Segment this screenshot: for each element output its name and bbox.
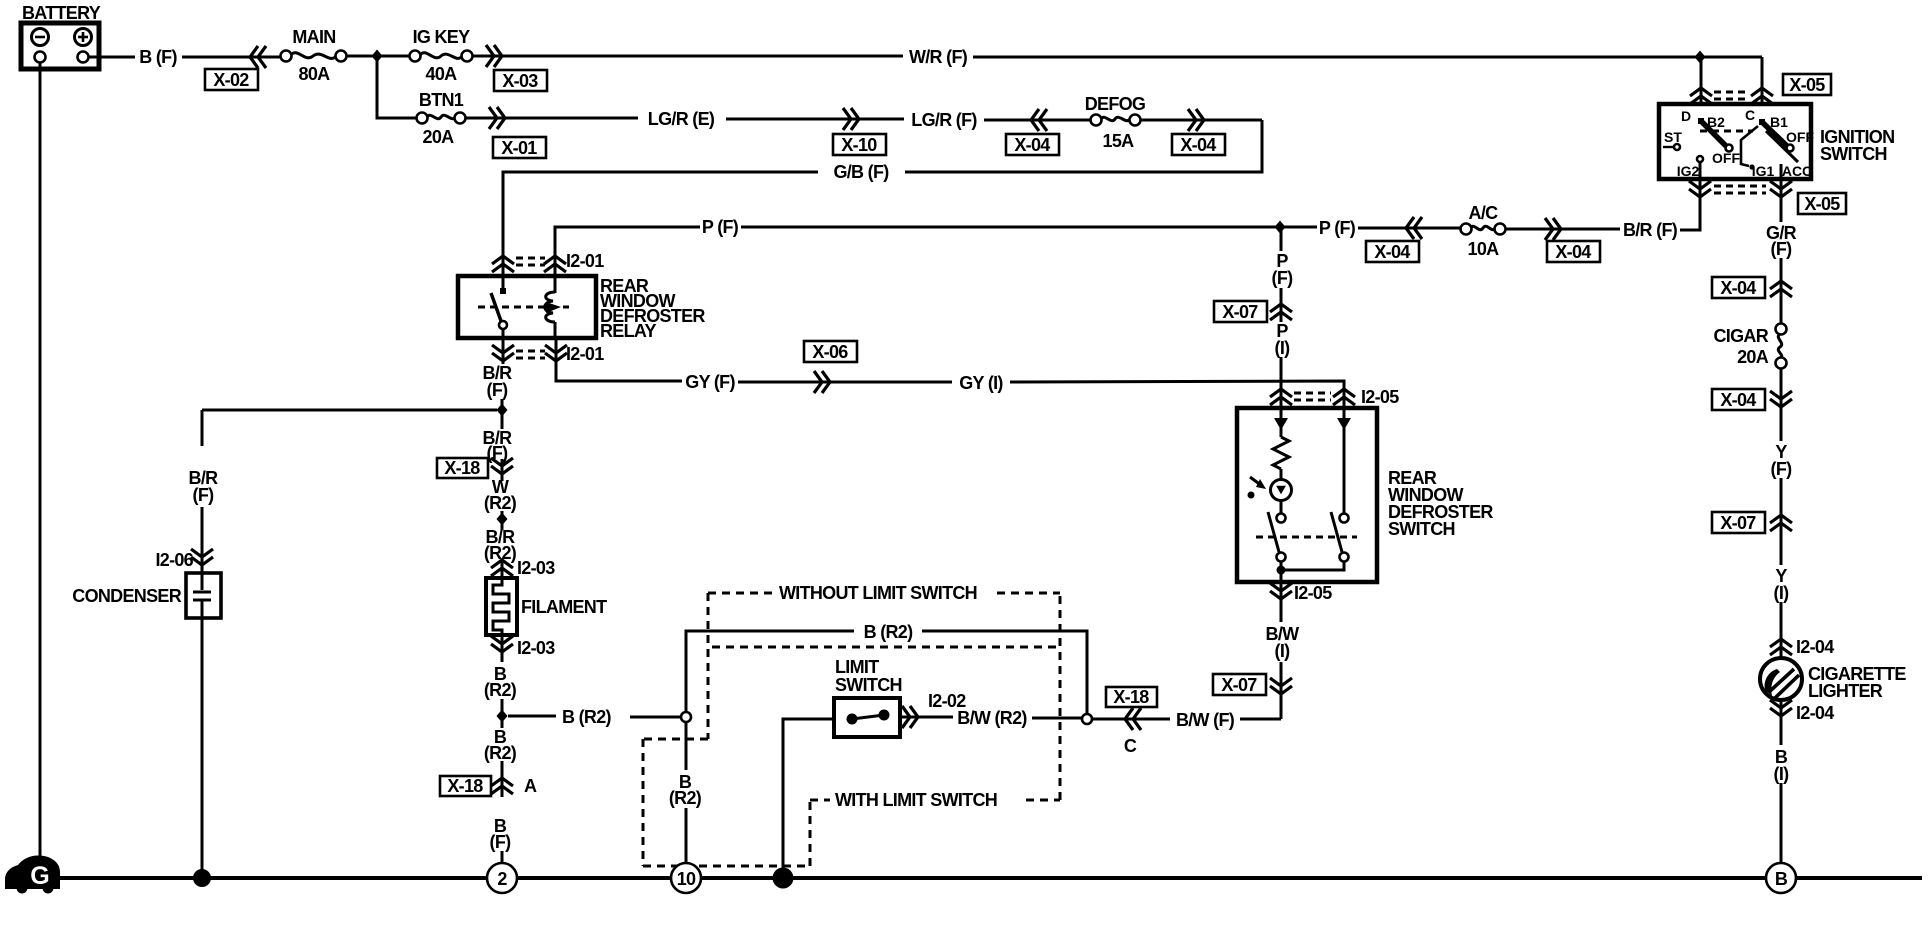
ground circle node B <box>1766 863 1796 893</box>
connector X-07 chevron <box>1280 662 1283 719</box>
filament R1 FILAMENT <box>486 578 607 635</box>
svg-text:X-18: X-18 <box>447 776 483 796</box>
wire limit switch right I2-02 <box>900 716 953 719</box>
connector X-05 label <box>1798 193 1846 214</box>
wire <box>1780 368 1783 441</box>
connector X-02 chevron <box>250 46 266 68</box>
svg-text:X-18: X-18 <box>1113 687 1149 707</box>
svg-text:I2-04: I2-04 <box>1796 637 1834 657</box>
svg-text:(F): (F) <box>1771 459 1793 479</box>
wire limit switch to ground junction <box>783 719 834 868</box>
svg-text:I2-03: I2-03 <box>517 638 555 658</box>
svg-text:ACC: ACC <box>1782 163 1812 179</box>
fuse BTN1 20A <box>417 90 466 147</box>
connector X-01 label <box>493 137 546 158</box>
svg-text:WITHOUT LIMIT SWITCH: WITHOUT LIMIT SWITCH <box>779 583 977 603</box>
connector I2-05 upper chevrons <box>1270 389 1292 405</box>
wire to ground circle B <box>1780 783 1783 863</box>
connector I2-05 lower chevron <box>1280 582 1283 622</box>
ground junction limit switch <box>773 868 794 889</box>
svg-text:B (R2): B (R2) <box>864 622 914 642</box>
svg-text:I2-01: I2-01 <box>566 344 604 364</box>
svg-text:GY (F): GY (F) <box>685 372 735 392</box>
wire battery negative to ground G <box>39 63 42 860</box>
svg-text:15A: 15A <box>1103 131 1135 151</box>
connector I2-04 chevron <box>1770 639 1792 655</box>
wire LG/R (E) to X-10 <box>726 118 904 121</box>
ground G car symbol <box>5 855 60 893</box>
wire branch to fuse BTN1 <box>377 56 416 118</box>
connector X-04 label <box>1006 134 1059 155</box>
svg-text:IG1: IG1 <box>1752 163 1775 179</box>
svg-text:A: A <box>524 776 537 796</box>
wire B (R2) branch right <box>508 715 556 718</box>
connector X-05 upper chevrons <box>1690 88 1712 104</box>
switch contact right <box>1331 512 1349 562</box>
svg-text:SWITCH: SWITCH <box>835 675 902 695</box>
wire to junction circle <box>1032 717 1082 720</box>
connector X-18 chevron <box>501 459 504 481</box>
svg-text:OFF: OFF <box>1712 150 1740 166</box>
svg-text:(F): (F) <box>193 485 215 505</box>
svg-text:ST: ST <box>1664 129 1682 145</box>
svg-text:OFF: OFF <box>1786 129 1814 145</box>
ground junction condenser <box>193 869 211 887</box>
switch S2 REAR WINDOW DEFROSTER SWITCH box <box>1237 408 1377 582</box>
connector X-18 chevron C <box>1125 708 1141 730</box>
wire to ground circle 2 <box>501 851 504 863</box>
connector I2-03 lower chevron <box>501 635 504 662</box>
lamp indicator bulb <box>1271 469 1292 514</box>
svg-text:B1: B1 <box>1770 114 1788 130</box>
svg-text:I2-03: I2-03 <box>517 558 555 578</box>
connector X-18 chevron A <box>501 761 504 797</box>
connector X-05 lower chevrons <box>1689 181 1711 197</box>
wire <box>1780 258 1783 323</box>
svg-text:(F): (F) <box>487 380 509 400</box>
svg-text:C: C <box>1124 736 1137 756</box>
svg-text:X-06: X-06 <box>812 342 848 362</box>
junction circle node <box>1082 714 1092 724</box>
connector X-03 label <box>494 70 547 91</box>
wire junction down <box>685 722 688 770</box>
wire W/R (F) to ignition switch <box>973 56 1762 59</box>
fuse A/C 10A <box>1461 203 1506 259</box>
svg-text:X-07: X-07 <box>1720 513 1756 533</box>
svg-text:P (F): P (F) <box>1319 218 1356 238</box>
relay switch contact <box>491 276 507 338</box>
connector X-03 chevron <box>486 45 502 67</box>
svg-text:X-04: X-04 <box>1374 242 1410 262</box>
svg-text:10A: 10A <box>1468 239 1500 259</box>
battery BATTERY <box>21 3 101 69</box>
connector I2-01 upper chevrons <box>492 256 514 272</box>
svg-text:X-04: X-04 <box>1014 135 1050 155</box>
connector X-04 chevron <box>1770 281 1792 297</box>
connector X-04 label <box>1172 134 1225 155</box>
junction circle node left <box>681 712 691 722</box>
wire W/R (F) <box>472 55 903 58</box>
svg-text:X-07: X-07 <box>1222 302 1258 322</box>
switch internal left branch pin arrow <box>1280 408 1283 437</box>
svg-text:(R2): (R2) <box>669 788 702 808</box>
wire <box>182 56 281 59</box>
svg-text:(I): (I) <box>1275 338 1291 358</box>
svg-text:I2-05: I2-05 <box>1361 387 1399 407</box>
svg-text:B/R (F): B/R (F) <box>1623 220 1678 240</box>
wire switch bottom link <box>1280 561 1283 582</box>
connector X-06 chevron <box>814 371 830 393</box>
condenser C1 CONDENSER <box>72 573 221 618</box>
svg-text:2: 2 <box>497 869 507 889</box>
wire P (I) into switch <box>1280 357 1283 408</box>
wire ignition top entries <box>1700 57 1703 104</box>
svg-text:I2-05: I2-05 <box>1294 583 1332 603</box>
svg-text:X-05: X-05 <box>1789 75 1825 95</box>
svg-text:(R2): (R2) <box>484 743 517 763</box>
svg-text:LG/R (F): LG/R (F) <box>911 110 977 130</box>
svg-text:LIMIT: LIMIT <box>835 657 879 677</box>
ignition switch S1 box <box>1659 104 1811 179</box>
connector X-10 chevron <box>843 108 859 130</box>
svg-text:20A: 20A <box>1737 347 1769 367</box>
svg-text:D: D <box>1681 108 1691 124</box>
junction node W/B-R <box>497 513 508 526</box>
svg-text:B/W (R2): B/W (R2) <box>957 708 1027 728</box>
wire P (F) row <box>555 227 700 276</box>
limit switch S3 LIMIT SWITCH <box>834 657 902 737</box>
connector X-06 label <box>804 341 857 362</box>
switch internal dashed link <box>1256 536 1357 539</box>
wire P (F) to fuse A/C <box>1358 227 1461 230</box>
svg-text:A/C: A/C <box>1469 203 1499 223</box>
svg-text:SWITCH: SWITCH <box>1388 519 1455 539</box>
connector X-04 chevron <box>1188 109 1204 131</box>
svg-text:B/W (F): B/W (F) <box>1176 710 1235 730</box>
svg-text:BTN1: BTN1 <box>419 90 464 110</box>
svg-text:DEFOG: DEFOG <box>1085 94 1146 114</box>
svg-text:X-04: X-04 <box>1180 135 1216 155</box>
svg-text:(I): (I) <box>1774 583 1790 603</box>
connector I2-02 chevron <box>902 706 918 728</box>
connector X-04 label <box>1547 241 1600 262</box>
connector I2-01 lower chevrons <box>492 345 514 361</box>
svg-text:X-01: X-01 <box>501 138 537 158</box>
svg-text:X-04: X-04 <box>1720 390 1756 410</box>
svg-text:G: G <box>30 862 49 890</box>
wire bypass left <box>686 631 854 712</box>
svg-text:WITH LIMIT SWITCH: WITH LIMIT SWITCH <box>835 790 997 810</box>
relay coil <box>545 276 570 338</box>
svg-text:(R2): (R2) <box>484 493 517 513</box>
connector X-07 chevron <box>1280 288 1283 322</box>
wire B/R (F) to ignition switch <box>1680 179 1700 230</box>
switch contact left <box>1268 512 1286 562</box>
svg-text:CIGAR: CIGAR <box>1714 326 1769 346</box>
svg-text:C: C <box>1745 107 1755 123</box>
connector X-10 label <box>833 134 886 155</box>
svg-text:X-04: X-04 <box>1555 242 1591 262</box>
wire corner down to G/B row <box>905 120 1262 172</box>
junction node B (R2) <box>497 710 508 723</box>
svg-text:MAIN: MAIN <box>292 27 335 47</box>
connector I2-06 chevron <box>191 549 213 565</box>
junction node at ignition <box>1695 51 1706 64</box>
wire DEFOG to corner <box>1140 119 1262 122</box>
wire condenser branch <box>202 409 497 412</box>
wire GY (F) from relay <box>556 338 682 381</box>
svg-text:FILAMENT: FILAMENT <box>521 597 607 617</box>
ground bus wire <box>52 876 1922 880</box>
wire LG/R (E) <box>465 117 638 120</box>
fuse CIGAR 20A <box>1714 324 1787 369</box>
wire B (R2) bypass riser <box>922 631 1087 714</box>
relay U1 REAR WINDOW DEFROSTER RELAY box <box>458 276 596 338</box>
ground circle node 2 <box>487 863 517 893</box>
svg-text:B (F): B (F) <box>139 47 177 67</box>
wire <box>1780 602 1783 657</box>
svg-text:10: 10 <box>677 869 696 889</box>
wire P (I) vertical <box>1280 227 1283 251</box>
junction node <box>372 50 383 63</box>
connector X-07 chevron <box>1770 515 1792 531</box>
wire B/W (F) <box>1240 718 1281 721</box>
svg-text:CONDENSER: CONDENSER <box>72 586 181 606</box>
ground circle node 10 <box>671 863 701 893</box>
fuse DEFOG 15A <box>1085 94 1146 151</box>
svg-text:LIGHTER: LIGHTER <box>1808 681 1883 701</box>
connector X-05 label <box>1783 74 1831 95</box>
svg-text:RELAY: RELAY <box>600 321 657 341</box>
wire GY (I) to switch <box>1010 381 1344 408</box>
svg-text:X-18: X-18 <box>444 458 480 478</box>
svg-text:(R2): (R2) <box>484 680 517 700</box>
illumination arrow <box>1248 477 1267 499</box>
svg-text:X-10: X-10 <box>841 135 877 155</box>
svg-text:(F): (F) <box>487 443 509 463</box>
svg-text:IG2: IG2 <box>1677 163 1700 179</box>
wire <box>501 399 504 429</box>
connector X-04 chevron <box>1031 109 1047 131</box>
svg-text:80A: 80A <box>299 64 331 84</box>
connector X-04 chevron <box>1406 217 1422 239</box>
cigarette lighter L1 CIGARETTE LIGHTER <box>1760 658 1906 701</box>
svg-text:X-05: X-05 <box>1804 194 1840 214</box>
ignition switch internals <box>1663 107 1814 179</box>
wire <box>1780 478 1783 565</box>
svg-text:X-04: X-04 <box>1720 278 1756 298</box>
connector X-04 chevron <box>1770 391 1792 407</box>
svg-text:W/R (F): W/R (F) <box>909 47 968 67</box>
wire <box>501 699 504 728</box>
wire ignition to G/R (F) <box>1780 179 1783 222</box>
wire condenser vertical B/R (F) <box>201 410 204 446</box>
svg-text:(F): (F) <box>1771 239 1793 259</box>
svg-text:P (F): P (F) <box>702 217 739 237</box>
svg-text:X-03: X-03 <box>502 71 538 91</box>
dashed option outline WITHOUT LIMIT SWITCH <box>643 583 1060 866</box>
svg-text:SWITCH: SWITCH <box>1820 144 1887 164</box>
svg-text:I2-01: I2-01 <box>566 251 604 271</box>
svg-text:X-07: X-07 <box>1221 675 1257 695</box>
connector I2-04 lower chevron <box>1780 700 1783 745</box>
svg-text:BATTERY: BATTERY <box>22 3 101 23</box>
connector I2-03 chevron <box>501 559 504 578</box>
connector X-02 label <box>205 69 258 90</box>
junction node B/R <box>497 404 508 417</box>
svg-text:X-02: X-02 <box>213 70 249 90</box>
relay internal dashed link <box>478 306 546 309</box>
svg-text:LG/R (E): LG/R (E) <box>648 109 715 129</box>
wire <box>501 511 504 530</box>
svg-text:20A: 20A <box>423 127 455 147</box>
svg-text:I2-04: I2-04 <box>1796 703 1834 723</box>
resistor R2 <box>1273 437 1289 469</box>
wire LG/R (F) to fuse DEFOG <box>984 119 1090 122</box>
wire condenser to ground bus <box>201 618 204 872</box>
svg-text:I2-06: I2-06 <box>155 550 193 570</box>
wire fuse MAIN to fuse IG KEY <box>346 55 410 58</box>
svg-text:IG KEY: IG KEY <box>413 27 471 47</box>
svg-text:GY (I): GY (I) <box>959 373 1003 393</box>
wire P (F) long <box>741 226 1317 229</box>
junction node P (F) <box>1275 221 1286 234</box>
svg-text:G/B (F): G/B (F) <box>833 162 889 182</box>
connector X-04 chevron <box>1545 218 1561 240</box>
wire GY to X-06 <box>738 381 952 384</box>
svg-text:B: B <box>1775 869 1788 889</box>
fuse MAIN 80A <box>281 27 347 84</box>
wire to junction circle <box>630 716 681 719</box>
svg-text:40A: 40A <box>426 64 458 84</box>
wire fuse to B/R (F) <box>1505 228 1620 231</box>
switch internal right branch pin arrow <box>1343 408 1346 514</box>
svg-text:(F): (F) <box>1272 268 1294 288</box>
connector X-04 label <box>1366 241 1419 262</box>
wire relay to B/R junction <box>502 338 505 364</box>
wire B (F) battery to fuse MAIN <box>89 56 135 59</box>
svg-text:(F): (F) <box>490 832 512 852</box>
svg-text:(I): (I) <box>1774 764 1790 784</box>
fuse IG KEY 40A <box>410 27 473 84</box>
wire to ground circle 10 <box>685 808 688 863</box>
svg-text:(I): (I) <box>1275 641 1291 661</box>
connector X-01 chevron <box>489 107 505 129</box>
wire G/B (F) to relay <box>503 172 818 276</box>
wire to junction circle <box>1092 718 1170 721</box>
svg-text:B (R2): B (R2) <box>562 707 612 727</box>
